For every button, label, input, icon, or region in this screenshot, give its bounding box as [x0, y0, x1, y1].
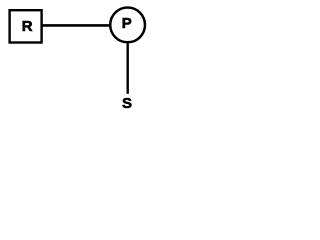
- svg-text:S: S: [122, 95, 132, 112]
- svg-text:P: P: [122, 15, 132, 32]
- svg-text:R: R: [22, 18, 33, 35]
